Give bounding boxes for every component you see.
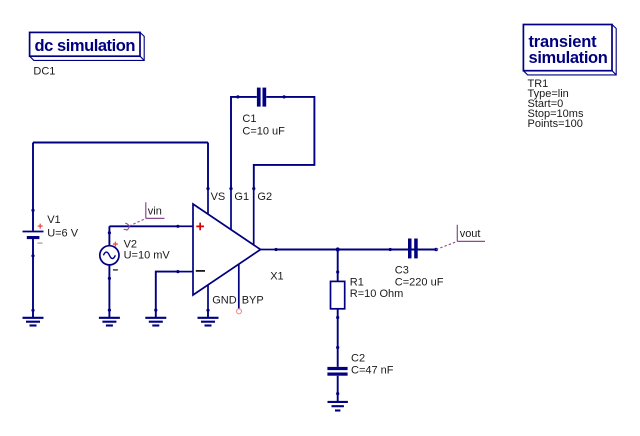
transient simulation block TR1 [523, 25, 616, 75]
capacitor C3 [390, 239, 436, 259]
wire V2 top [108, 226, 110, 233]
pin label GND [212, 294, 237, 306]
node C1 right pin [283, 95, 286, 98]
wire C1 right to G2 [254, 97, 315, 189]
node inverting ground [154, 309, 157, 312]
svg-text:G1: G1 [234, 191, 249, 203]
svg-text:transient: transient [529, 33, 598, 51]
node output pin [274, 248, 277, 251]
svg-text:C3: C3 [395, 265, 409, 277]
wire -input to ground corner [156, 272, 178, 311]
capacitor C2 [327, 348, 347, 394]
label C2 value [351, 353, 394, 377]
pin label VS [211, 191, 226, 203]
label vout [436, 225, 485, 250]
node GND pin end [206, 309, 209, 312]
wire V1 bottom to ground [32, 256, 34, 310]
svg-text:C2: C2 [351, 353, 365, 365]
node V1 bottom pin [31, 254, 34, 257]
voltage source V1 [23, 210, 44, 256]
node V2 top pin [108, 231, 111, 234]
ac source V2 [100, 233, 119, 279]
ground V2 [99, 310, 120, 325]
label TR1 parameters [528, 78, 584, 130]
node R1 top pin [336, 270, 339, 273]
wire output net [276, 249, 436, 251]
svg-text:X1: X1 [270, 270, 283, 282]
ground op-amp GND pin [198, 310, 219, 325]
open pin node BYP [237, 309, 242, 314]
wire R1 to C2 [337, 318, 339, 348]
wire junction to R1 [337, 250, 339, 273]
dc simulation block DC1 [30, 32, 145, 60]
node C2 bottom pin [336, 392, 339, 395]
node V1 ground [31, 309, 34, 312]
svg-text:U=6 V: U=6 V [47, 227, 79, 239]
svg-text:BYP: BYP [242, 294, 264, 306]
ground V1 [23, 310, 44, 325]
node VS pin [206, 187, 209, 190]
label C1 value [242, 113, 285, 138]
node V1 top pin [31, 209, 34, 212]
junction output R1 [336, 247, 340, 251]
pin label G2 [257, 191, 272, 203]
svg-text:R1: R1 [350, 276, 364, 288]
node V2 ground [108, 309, 111, 312]
op-amp X1 [178, 189, 276, 311]
svg-text:Points=100: Points=100 [528, 118, 583, 130]
label V1 value [47, 214, 79, 239]
svg-text:vin: vin [148, 205, 162, 217]
wire left vertical to V1 [32, 143, 34, 211]
wire VS pin drop [207, 143, 209, 189]
wire G1 to C1 [231, 97, 238, 189]
svg-text:U=10 mV: U=10 mV [124, 250, 171, 262]
svg-text:C=10 uF: C=10 uF [242, 125, 285, 137]
node C2 top pin [336, 346, 339, 349]
node C3 left pin [389, 248, 392, 251]
node vout wire end [434, 248, 438, 252]
label DC1 [33, 66, 55, 78]
capacitor C1 [238, 88, 284, 107]
wire vin net V2 to +input [109, 225, 177, 227]
svg-text:V1: V1 [47, 214, 60, 226]
node -input pin [176, 270, 179, 273]
svg-text:GND: GND [212, 294, 237, 306]
pin label BYP [242, 294, 264, 306]
label C3 value [395, 265, 444, 289]
svg-text:vout: vout [460, 228, 481, 240]
label V2 value [124, 238, 171, 261]
svg-text:VS: VS [211, 191, 226, 203]
pin label G1 [234, 191, 249, 203]
wire V2 bottom to ground [108, 278, 110, 310]
label X1 [270, 270, 283, 282]
node G2 pin [252, 187, 255, 190]
svg-text:dc simulation: dc simulation [35, 37, 136, 55]
node V2 bottom pin [108, 277, 111, 280]
resistor R1 [331, 272, 345, 318]
svg-text:G2: G2 [257, 191, 272, 203]
svg-text:C1: C1 [242, 113, 256, 125]
svg-text:R=10 Ohm: R=10 Ohm [350, 288, 404, 300]
ground inverting input [145, 310, 166, 325]
svg-text:simulation: simulation [529, 49, 608, 67]
label vin [124, 202, 165, 230]
svg-text:C=47 nF: C=47 nF [351, 365, 394, 377]
node R1 bottom pin [336, 316, 339, 319]
svg-text:DC1: DC1 [33, 66, 55, 78]
wire top horizontal V1 to VS [33, 142, 208, 144]
label R1 value [350, 276, 404, 300]
svg-text:C=220 uF: C=220 uF [395, 276, 444, 288]
node G1 pin [229, 187, 232, 190]
node C1 left pin [236, 95, 239, 98]
node +input pin [176, 225, 179, 228]
ground C2 [328, 394, 348, 411]
